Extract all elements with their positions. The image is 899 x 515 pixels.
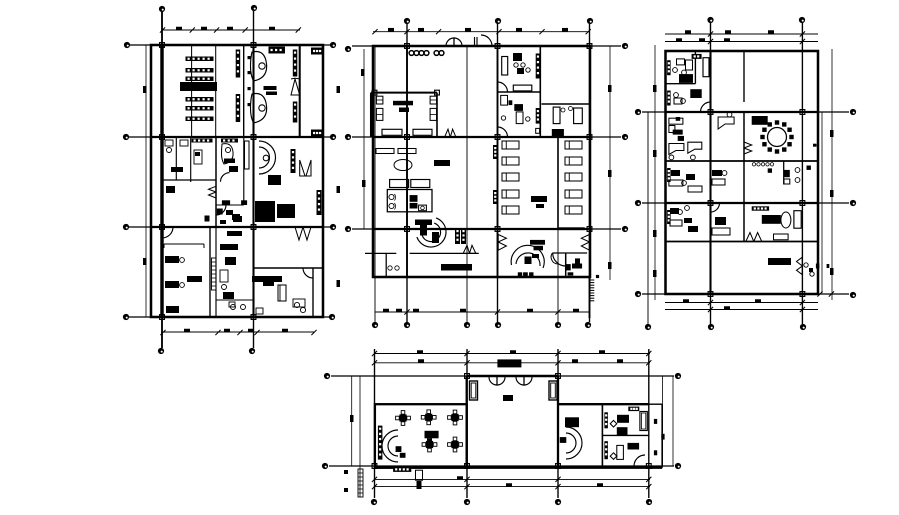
plan4 small mark [344, 470, 348, 474]
plan3 grid col B [801, 23, 803, 324]
plan1 mid dark3 [223, 292, 234, 299]
plan3 grid box [708, 110, 713, 115]
plan2 toilet block [387, 190, 432, 212]
plan2 wall x386 low [385, 253, 387, 277]
plan2 grid col a2 [374, 46, 376, 322]
plan2 bottom door M [463, 245, 469, 253]
plan3 pantry cab [794, 211, 801, 229]
plan2 heavy band y229 [559, 227, 585, 230]
plan1 left dim tick [143, 258, 147, 265]
plan3 o4 strip [667, 168, 671, 182]
plan3 o2 door [701, 102, 711, 112]
plan4 grid col C [557, 349, 559, 498]
plan2 tick y277 [596, 275, 599, 278]
plan3 dim slash [800, 31, 805, 36]
plan2 ward beds R [565, 141, 582, 149]
plan2 br stack dark2 [534, 246, 544, 251]
plan3 wall x784 wc [783, 161, 785, 185]
plan3 top dim 1 [665, 33, 818, 35]
plan3 right dim line [831, 49, 833, 300]
plan1 desk small [194, 150, 202, 164]
plan2 grid row 3 [352, 228, 621, 230]
plan3 right dim tick [830, 268, 834, 275]
plan1 chair l1 [180, 258, 185, 263]
plan4 o1 strip [604, 412, 608, 428]
plan1 door squares [248, 56, 251, 59]
plan2 bubble bottom [404, 322, 410, 328]
plan3 m2 desk [712, 179, 725, 185]
plan1 dark label [264, 86, 277, 90]
plan3 grid row 2 [642, 202, 849, 204]
plan3 m2 dark [712, 170, 722, 176]
plan2 wc L1 [389, 194, 394, 199]
plan2 top dim tick [562, 28, 568, 32]
plan2 bubble top A [404, 18, 410, 24]
plan2 bottom dim tick [383, 309, 389, 313]
plan1 grid box [251, 315, 256, 320]
plan2 wc R dark2 [410, 203, 418, 209]
plan3 low door M [746, 233, 754, 242]
plan3 wall y241 [666, 241, 819, 243]
plan1 exam chair mid [222, 144, 234, 164]
plan1 door arc band2 [216, 205, 226, 215]
plan2 wall y137 [373, 136, 590, 138]
plan3 bubble right 2 [850, 200, 856, 206]
plan1 toilet [165, 140, 173, 146]
plan2 bottom dim tick [573, 309, 579, 313]
plan2 bubble bottom [555, 322, 561, 328]
plan1 shelf strip [236, 50, 241, 78]
plan3 left dim tick [653, 85, 657, 92]
plan2 left dim tick [361, 69, 365, 76]
plan1 bubble B-top [251, 5, 257, 11]
plan3 grid col a [647, 112, 649, 324]
plan4 left dim line [351, 376, 353, 466]
plan3 grid box [708, 201, 713, 206]
plan4 top dim tick [417, 350, 423, 354]
plan3 bubble top B [799, 17, 805, 23]
plan2 dim slash [404, 29, 409, 34]
plan3 grid col A [710, 23, 712, 324]
plan1 dental chair 2 [251, 94, 267, 124]
plan3 dim slash b [708, 300, 713, 305]
plan4 grid col A [374, 349, 376, 498]
plan2 top dim tick [516, 28, 522, 32]
plan2 right dim tick [608, 85, 612, 92]
plan1 stool [294, 302, 299, 307]
plan4 o1 cluster [617, 415, 629, 423]
plan1 dark mid1 [224, 159, 235, 164]
plan1 cabinet col [291, 149, 296, 173]
plan2 right dim line [609, 46, 611, 280]
plan1 wall x216 [215, 45, 217, 137]
plan1 bubble 2-left [123, 134, 129, 140]
plan4 o1 dark blob [617, 427, 628, 435]
plan2 wing dark label [393, 101, 413, 106]
plan3 rc dark2 [813, 144, 817, 147]
plan2 reception chair dark [432, 232, 439, 243]
plan2 r2 dark big [514, 104, 523, 111]
plan1 far right cab [311, 48, 323, 55]
plan1 grid box [251, 43, 256, 48]
plan1 mid cab row [269, 47, 286, 54]
plan2 wing bunk R2 [430, 108, 437, 120]
plan1 dark row b [217, 209, 223, 215]
plan1 top dim tick [269, 27, 275, 31]
plan1 dim slash [214, 27, 219, 32]
plan1 wall x313 [312, 268, 314, 317]
plan2 wall y104 right [542, 103, 590, 105]
plan3 wall y112 [666, 111, 819, 113]
plan4 dim slash [555, 351, 560, 356]
plan1 right dark blob [263, 281, 274, 286]
plan1 dark wc [166, 186, 175, 193]
plan1 bottom dim tick [282, 329, 288, 333]
plan1 corridor cabinet [245, 141, 250, 169]
plan1 right dim tick [337, 186, 341, 193]
plan3 o2 desk [674, 98, 682, 104]
plan4 mid dark [565, 417, 579, 427]
plan1 dark block big2 [277, 204, 295, 218]
plan4 bubble bot C [555, 499, 561, 505]
plan1 dental chair 1 [251, 52, 267, 82]
plan1 wall x176 [175, 137, 177, 180]
plan2 outline [373, 46, 590, 277]
plan3 o1 chairs [673, 68, 678, 73]
plan3 o5 desk [670, 220, 682, 226]
plan1 building outline [151, 45, 323, 317]
plan2 grid col B [497, 24, 499, 322]
plan3 o1 tall cab [703, 58, 709, 77]
plan4 tables [400, 415, 406, 421]
plan4 o2 diamond [610, 453, 617, 460]
plan1 right dim tick [337, 280, 341, 287]
plan4 bubble bot D [646, 499, 652, 505]
plan3 bottom table dark [768, 258, 791, 265]
plan3 wall colA [709, 51, 711, 294]
plan2 door jamb [474, 37, 476, 46]
plan1 low fixtures [231, 305, 236, 310]
plan2 br door arc [553, 253, 566, 266]
plan2 bottom dim tick [460, 309, 466, 313]
plan1 small square bl [256, 308, 263, 314]
plan2 wc L2 [389, 203, 394, 208]
plan1 bubble A-bot [158, 348, 164, 354]
plan3 right dim line2 [821, 112, 823, 293]
plan3 pantry dark [762, 215, 781, 224]
plan4 top dim tick [418, 359, 424, 363]
plan2 toilet benches [390, 180, 409, 188]
plan3 o3 desk3 [688, 142, 702, 153]
plan2 wing bunk L1 [376, 96, 383, 104]
plan1 dark block big1 [255, 201, 275, 222]
plan4 dark table [425, 431, 439, 439]
plan4 mid arc [566, 427, 582, 459]
plan3 grid box [708, 292, 713, 297]
plan1 bottom dim tick [248, 329, 254, 333]
plan1 top dimension line [162, 29, 300, 31]
plan 2 group [345, 18, 628, 328]
plan4 o1 tall cab [640, 412, 647, 431]
plan3 bottom dim tick [724, 306, 730, 310]
plan1 desk left1 [165, 256, 179, 263]
plan3 bubble right 3 [850, 292, 856, 298]
plan4 dim slash b [646, 477, 651, 482]
plan4 right dim line [661, 376, 663, 466]
plan1 shelf strip2 [236, 94, 241, 122]
plan2 bubble right 3 [622, 226, 628, 232]
plan2 top dim tick [465, 28, 471, 32]
plan4 dim slash b [464, 477, 469, 482]
plan2 dim slash b [495, 309, 500, 314]
plan3 bottom dim 1 [665, 302, 818, 304]
plan2 dark label mid [434, 160, 450, 166]
plan1 door M right [291, 79, 300, 95]
plan1 dim slash [160, 27, 165, 32]
plan2 reception T [415, 220, 432, 226]
plan3 m1 desk [718, 117, 734, 129]
plan4 o2 dark [628, 443, 640, 450]
plan2 reception arc inner [422, 223, 440, 241]
plan4 grid box [556, 374, 561, 379]
plan4 dim slash b [555, 477, 560, 482]
plan2 grid box [495, 227, 500, 232]
plan3 pantry oval [781, 212, 791, 228]
plan2 dim slash [539, 29, 544, 34]
plan3 wc stall dark [784, 170, 790, 177]
plan1 desk left3 [166, 306, 179, 313]
plan1 right col strip [317, 190, 322, 215]
plan4 top dim tick [510, 350, 516, 354]
plan4 bottom dim tick [597, 483, 603, 487]
plan2 ward beds L [502, 141, 519, 149]
plan4 lobby right wall [557, 376, 559, 468]
plan3 o1 dark [679, 74, 693, 83]
plan 1 group [123, 5, 340, 354]
plan2 bottom dimension [375, 311, 590, 313]
plan1 grid row 4 [129, 316, 330, 318]
plan4 right wing top [558, 403, 649, 405]
plan3 top dim tick [685, 30, 691, 34]
plan2 wall x558 [557, 137, 559, 229]
plan1 dim slash b [215, 330, 220, 335]
plan2 bubble top B [495, 18, 501, 24]
plan 3 group [635, 17, 856, 330]
plan3 bubble left 2 [635, 200, 641, 206]
plan2 grid row 1 [352, 45, 621, 47]
plan1 wall y268 [254, 267, 324, 269]
plan1 toilet2 [180, 140, 188, 146]
plan1 bench row 2 [221, 139, 238, 143]
plan1 wall x210 [209, 227, 211, 317]
plan3 top dim tick [724, 38, 730, 42]
plan2 grid col A [406, 24, 408, 322]
plan2 door top arc [481, 35, 492, 46]
plan1 bench row 1 [192, 139, 213, 143]
plan4 bubble left 2 [322, 463, 328, 469]
plan2 left dim line [363, 49, 365, 229]
plan2 corridor strip2 [461, 228, 466, 244]
plan2 r2 tall [516, 112, 523, 124]
plan3 wall x744 mid [743, 112, 745, 242]
plan1 wall y300 seg [216, 299, 254, 301]
plan3 dim slash c [817, 291, 822, 296]
plan2 wall x540 [539, 46, 541, 137]
plan4 mid chair dark [560, 437, 567, 443]
plan4 office wall y435 [602, 434, 648, 436]
plan3 right dim tick [830, 130, 834, 137]
plan2 grid box [405, 227, 410, 232]
plan2 dim slash [436, 29, 441, 34]
plan2 bottom dim tick [527, 309, 533, 313]
plan3 wc dark [768, 168, 772, 172]
plan3 m3 door [711, 203, 720, 212]
plan1 bubble A-top [159, 6, 165, 12]
plan2 bottom dim tick [396, 309, 402, 313]
plan2 br door L [498, 235, 506, 243]
plan4 dim slash [646, 351, 651, 356]
plan1 door M x216 [209, 186, 217, 192]
plan2 mid benches top [376, 149, 394, 154]
plan4 left dim line2 [359, 376, 361, 497]
plan4 reception dark2 [400, 453, 406, 458]
plan1 right col door M [300, 160, 305, 176]
plan4 ladder left [358, 469, 363, 497]
plan3 wall y84 left [666, 83, 696, 85]
plan1 top dim tick [201, 27, 207, 31]
plan2 dim slash b [555, 309, 560, 314]
plan2 br dark small [568, 272, 574, 275]
plan2 grid box [405, 44, 410, 49]
plan2 right edge extension [589, 277, 591, 318]
plan2 top dim tick [388, 28, 394, 32]
plan2 r2 strip [536, 108, 541, 124]
plan1 mid dark2 [225, 257, 236, 265]
plan3 bottom dim 2 [665, 309, 818, 311]
plan3 o3 sq [676, 117, 681, 121]
plan2 r2 chairs [501, 116, 505, 120]
plan3 o3 desk1 [669, 118, 683, 124]
plan3 grid row 1 [642, 111, 849, 113]
plan2 br door R [581, 235, 589, 243]
plan1 desk left2 [165, 281, 179, 288]
plan2 mr dark [552, 129, 564, 136]
plan4 below box [416, 470, 423, 480]
plan2 grid box [587, 135, 592, 140]
plan4 grid box [556, 464, 561, 469]
plan2 dim slash [372, 29, 377, 34]
plan4 top dim tick [599, 350, 605, 354]
plan1 door arc br [303, 268, 313, 278]
plan2 r2 desk [501, 95, 508, 105]
plan1 grid row 2 [129, 136, 330, 138]
plan2 bubble bottom [495, 322, 501, 328]
plan4 grid col B [466, 349, 468, 498]
plan1 grid column A [161, 12, 163, 348]
plan2 top dimension [373, 31, 590, 33]
plan4 bottom dim 1 [374, 478, 650, 480]
plan2 corridor strip [455, 228, 460, 244]
plan1 dark wc2 [171, 167, 183, 172]
plan3 wall x744 top [743, 51, 745, 102]
plan3 o3 dark2 [678, 136, 684, 141]
plan2 r2 sq [536, 128, 540, 133]
plan1 grid box [251, 225, 256, 230]
plan1 wall row3 [151, 226, 323, 228]
plan3 wc circ2 [795, 178, 800, 183]
plan1 dark row c [233, 216, 242, 222]
plan2 dim slash [586, 29, 591, 34]
plan1 bubble 1-right [330, 42, 336, 48]
plan3 bottom door M right [797, 257, 803, 266]
plan2 bubble right 1 [622, 43, 628, 49]
plan1 dark below arc [268, 175, 281, 185]
plan4 bubble bot A [371, 499, 377, 505]
plan2 grid box [405, 135, 410, 140]
plan2 dim slash b [404, 309, 409, 314]
plan2 oval table [394, 160, 412, 171]
plan4 dim slash [464, 351, 469, 356]
plan3 dim slash b [800, 300, 805, 305]
plan1 far right cab2 [311, 130, 323, 137]
plan2 ward dark label [531, 196, 547, 202]
plan3 o4 desk2 [688, 186, 702, 192]
plan4 left wing outline [375, 404, 467, 467]
plan3 o4 desk [669, 180, 683, 186]
plan2 sink [419, 205, 427, 211]
plan4 dim slash [372, 351, 377, 356]
plan1 dark center [187, 276, 202, 282]
plan1 grid box [160, 315, 165, 320]
plan2 ladder right [590, 280, 595, 301]
plan2 wall y92 room1 [498, 91, 541, 93]
plan3 sink circles [752, 163, 755, 166]
plan2 br fan inner [516, 253, 540, 266]
plan2 br squares [518, 272, 522, 276]
plan1 right counter dark [252, 276, 282, 282]
plan2 reception arc outer [417, 218, 446, 247]
plan1 dim slash b [160, 330, 165, 335]
plan4 grid box [372, 464, 377, 469]
plan1 grid column B [253, 11, 255, 348]
plan4 right wing top ext [649, 403, 662, 405]
plan2 br fan dark1 [525, 257, 532, 265]
plan2 grid row 2 [352, 136, 621, 138]
plan4 pilaster L [470, 381, 478, 400]
plan4 top dim tick [572, 359, 578, 363]
plan3 top dim 2 [665, 41, 818, 43]
plan3 o5 dark2 [688, 226, 698, 232]
plan3 bubble left 1 [635, 109, 641, 115]
plan4 lobby doors [489, 377, 497, 385]
plan1 left dimension line [145, 45, 147, 317]
plan3 o4 dark [671, 170, 680, 176]
plan2 br dark plus [572, 264, 582, 269]
plan4 o2 door [634, 455, 645, 466]
plan3 wc stall2 [784, 179, 790, 184]
plan1 desk rows [186, 57, 214, 122]
plan3 o2 strip [667, 91, 671, 106]
plan3 bubble right 1 [850, 109, 856, 115]
plan3 o5 chairs [678, 210, 683, 215]
plan3 rc low1 [804, 263, 808, 267]
plan4 top dim 2 [374, 362, 650, 364]
plan1 grid row 3 [129, 226, 330, 228]
plan1 grid box [160, 135, 165, 140]
plan2 bubble left 3 [345, 226, 351, 232]
plan4 dim slash b [372, 477, 377, 482]
plan4 lobby dark [503, 395, 513, 401]
